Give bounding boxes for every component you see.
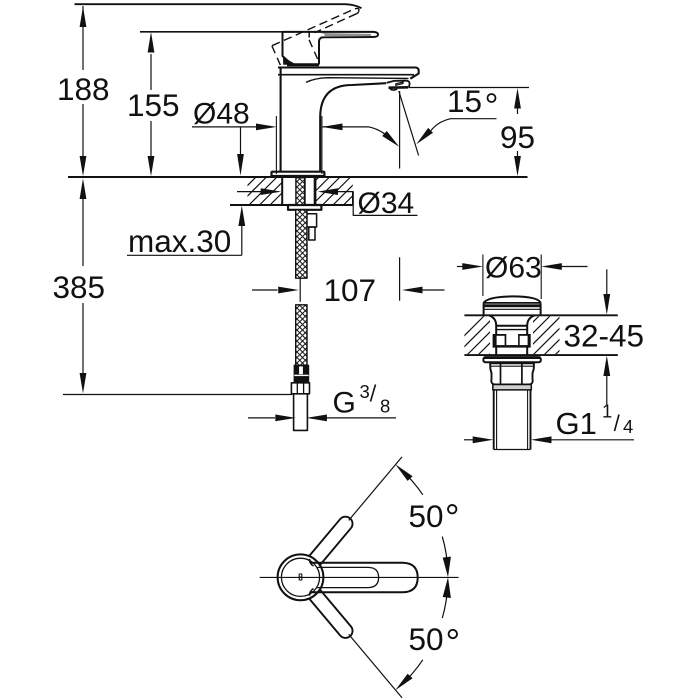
50 degree arc lower <box>442 584 448 618</box>
counter cross-section <box>68 176 528 178</box>
svg-text:155: 155 <box>127 87 180 123</box>
leader arrow down to counter at x=240 <box>240 127 242 155</box>
handle lever (rest position) <box>283 32 378 65</box>
50 degree extension line upper <box>349 457 402 521</box>
body top plate <box>278 68 419 79</box>
dimension 95 <box>409 87 530 89</box>
spout outlet <box>387 81 410 88</box>
drain collar <box>493 385 532 390</box>
stud below flange <box>307 214 317 227</box>
drain body in hole <box>489 315 496 355</box>
svg-text:50: 50 <box>409 498 444 534</box>
faucet base plate <box>272 172 325 177</box>
svg-text:8: 8 <box>380 396 390 417</box>
label G 3/8 <box>248 417 275 419</box>
body circle inner <box>281 558 319 596</box>
svg-text:188: 188 <box>57 71 110 107</box>
wire hose-end reference line (385 level) <box>63 394 292 396</box>
braided hose lower segment <box>296 305 307 366</box>
dimension 188 <box>82 6 84 157</box>
svg-text:max.30: max.30 <box>128 223 231 259</box>
drain counter hatch <box>440 315 595 360</box>
svg-text:Ø34: Ø34 <box>358 187 415 220</box>
handle horizontal <box>311 563 418 593</box>
50 degree extension line lower <box>349 634 402 698</box>
svg-text:32-45: 32-45 <box>564 318 645 354</box>
svg-text:G: G <box>333 387 356 420</box>
drain hex nut <box>490 363 534 385</box>
drain tail pipe <box>494 390 531 450</box>
svg-text:Ø63: Ø63 <box>485 252 542 285</box>
under-counter flange <box>288 205 321 210</box>
centerline <box>260 576 459 578</box>
dimension 385 <box>82 196 84 374</box>
plumb line from spout <box>399 91 401 169</box>
overflow windows <box>493 334 531 348</box>
spout underside <box>320 83 386 117</box>
body circle outer <box>278 554 324 600</box>
aerator <box>396 82 404 85</box>
50 degree arc upper <box>442 537 448 571</box>
drain cap <box>483 296 540 303</box>
svg-text:15: 15 <box>447 83 482 119</box>
svg-text:107: 107 <box>324 272 377 308</box>
hose fitting <box>294 365 308 383</box>
svg-text:G1: G1 <box>556 406 597 441</box>
hose tail tube <box>294 394 308 431</box>
drain counter section <box>464 314 617 316</box>
handle base / cartridge cover <box>283 32 320 65</box>
handle rotated up 50 <box>309 517 352 566</box>
15 degree stream line <box>399 91 419 156</box>
dimension 155 <box>150 54 152 157</box>
counter hole walls <box>281 177 283 205</box>
svg-text:50: 50 <box>409 621 444 657</box>
wire lever-top reference line (155 level) <box>140 31 283 33</box>
svg-text:385: 385 <box>53 269 106 305</box>
dimension G1 1/4 <box>464 439 473 441</box>
svg-text:Ø48: Ø48 <box>193 98 250 131</box>
counter hatch <box>225 177 382 208</box>
label Ø34 <box>237 191 262 193</box>
svg-text:95: 95 <box>500 119 535 155</box>
dimension 107 <box>252 289 278 291</box>
drain washer <box>483 357 540 362</box>
handle rotated down 50 <box>309 589 352 638</box>
braided hose upper segment <box>296 178 305 205</box>
shank parts in hole <box>305 177 315 205</box>
faucet body outline <box>280 69 282 172</box>
arc from Ø48 dim to plumb line <box>369 127 391 139</box>
svg-text:4: 4 <box>623 416 633 437</box>
dashed raised lever <box>272 8 359 67</box>
svg-text:3: 3 <box>360 381 370 402</box>
svg-text:1: 1 <box>602 401 612 422</box>
wire Ø48 extension lines <box>275 116 277 174</box>
wire top reference line (188 level) <box>75 4 362 8</box>
logo mark <box>299 574 302 580</box>
spout inner contour <box>306 78 409 83</box>
